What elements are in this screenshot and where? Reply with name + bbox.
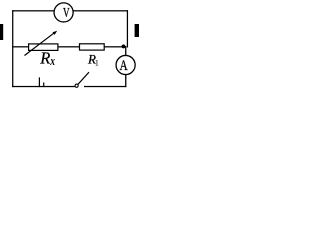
ammeter A circle bbox=[116, 55, 135, 74]
switch lever bbox=[78, 72, 89, 84]
wire bottom right segment bbox=[84, 86, 126, 87]
resistor R1 box bbox=[80, 44, 105, 50]
rheostat arrow through R_x bbox=[25, 33, 55, 56]
paper (opaque white region of scanned schematic) bbox=[12, 10, 128, 88]
wire bottom left segment bbox=[12, 86, 75, 87]
svg-text:R: R bbox=[39, 48, 50, 67]
wire ammeter branch vertical bbox=[125, 46, 126, 87]
svg-text:V: V bbox=[63, 5, 70, 20]
wire right upper bbox=[127, 10, 128, 47]
battery short plate bbox=[43, 83, 44, 88]
right margin bar (clipped neighbour ink) bbox=[135, 24, 139, 37]
resistor R_x box bbox=[29, 44, 58, 51]
left margin bar (clipped neighbour ink) bbox=[0, 24, 3, 40]
wire left bbox=[12, 10, 13, 87]
voltmeter V circle bbox=[54, 3, 73, 22]
wire top bbox=[12, 10, 128, 11]
svg-text:A: A bbox=[120, 58, 128, 74]
circuit schematic: voltmeter-ammeter method for measuring R_x bbox=[0, 0, 139, 122]
svg-text:1: 1 bbox=[95, 59, 99, 68]
battery long plate bbox=[39, 77, 40, 87]
node junction dot bbox=[122, 44, 126, 48]
wire middle horizontal bbox=[12, 46, 126, 47]
white notch at left edge bbox=[10, 30, 13, 36]
switch contact circle bbox=[75, 84, 78, 87]
svg-text:x: x bbox=[49, 53, 55, 68]
